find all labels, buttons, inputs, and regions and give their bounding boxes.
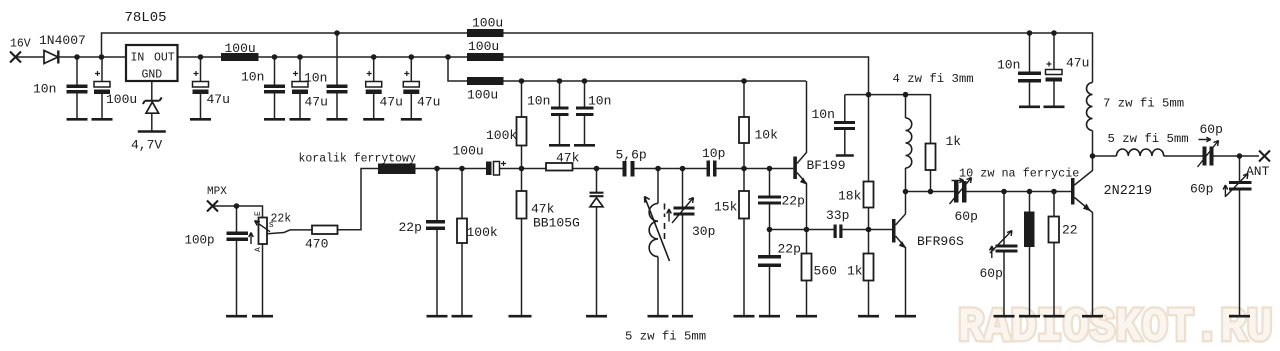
transistor BF199 [793, 157, 807, 185]
resistor 15k R8 [739, 191, 749, 219]
resistor 1k R13 [926, 144, 936, 171]
transistor BFR96S [892, 219, 906, 248]
wire 10k R7 branch [743, 81, 745, 169]
svg-text:4 zw fi 3mm: 4 zw fi 3mm [893, 72, 974, 86]
wire 47u C9 branch [410, 57, 412, 119]
resistor 22 R12 [1049, 217, 1060, 243]
svg-text:47u: 47u [305, 95, 328, 110]
svg-text:1k: 1k [946, 134, 962, 149]
ground 10n C15 [836, 154, 854, 157]
svg-text:10n: 10n [304, 71, 327, 86]
capacitor 33p [834, 225, 843, 239]
inductor 100u L3 choke mid [467, 53, 504, 61]
svg-text:33p: 33p [826, 208, 849, 223]
svg-text:22: 22 [1062, 223, 1078, 238]
wire 10n C11 branch [584, 81, 586, 145]
wire 47u C8 branch [373, 57, 375, 119]
capacitor 47u C8 electrolytic [366, 71, 382, 94]
wire BF199 collector [797, 81, 807, 164]
svg-text:10p: 10p [702, 146, 725, 161]
svg-text:OUT: OUT [154, 52, 175, 65]
wire 18k R10 branch [868, 95, 870, 230]
svg-text:IN: IN [131, 52, 145, 65]
ground main row [226, 315, 247, 318]
wire 560 R9 branch [806, 230, 808, 317]
wire 100k R2 branch from RF line to audio line [521, 81, 523, 169]
wire 60p shunt branch [1003, 192, 1005, 317]
variable inductor L5 5zw [645, 197, 670, 262]
wire 4zw coil branch [905, 95, 907, 214]
wire regulator OUT 5V rail [178, 57, 869, 95]
svg-text:RADIOSKOT.RU: RADIOSKOT.RU [958, 301, 1273, 351]
svg-text:22p: 22p [778, 242, 801, 257]
resistor 47k R3 [517, 191, 527, 219]
wire 47u C17 branch [1053, 33, 1055, 106]
ground 10n C16 47u C17 [1019, 106, 1040, 109]
wire 22p C14 branch [769, 230, 771, 317]
svg-text:4,7V: 4,7V [131, 138, 162, 153]
wire antenna shunt 60p branch [1239, 156, 1241, 316]
capacitor 10n C16 [1018, 72, 1041, 83]
wire output line to antenna [1093, 155, 1260, 157]
wire input line to regulator IN [16, 56, 127, 58]
svg-text:100k: 100k [486, 128, 517, 143]
svg-text:1k: 1k [847, 264, 863, 279]
wire supply node line y94.6 [845, 95, 931, 192]
svg-text:10k: 10k [755, 128, 779, 143]
svg-text:60p: 60p [1190, 182, 1213, 197]
wire 2N2219 collector [1075, 156, 1093, 185]
input terminal X 16V [10, 52, 21, 63]
capacitor 100u C2 electrolytic [94, 71, 110, 94]
capacitor 10n C7 [327, 85, 348, 94]
svg-text:60p: 60p [955, 209, 978, 224]
wire audio line mid segments [500, 168, 794, 170]
svg-text:10n: 10n [527, 94, 550, 109]
inductor 5 zw fi 5mm coil horizontal [1117, 149, 1164, 156]
resistor 18k R10 [864, 182, 874, 208]
svg-text:47u: 47u [207, 92, 230, 107]
trimmer capacitor 60p output series [1198, 137, 1219, 167]
capacitor 47u C9 electrolytic [403, 71, 419, 94]
varicap BB105G [590, 193, 604, 207]
svg-text:5,6p: 5,6p [616, 148, 647, 163]
svg-text:BF199: BF199 [807, 158, 846, 173]
svg-text:A: A [254, 247, 263, 252]
diode 1N4007 [44, 51, 58, 64]
svg-text:5 zw fi 5mm: 5 zw fi 5mm [625, 330, 706, 344]
svg-text:47u: 47u [380, 95, 403, 110]
svg-text:16V: 16V [10, 38, 31, 51]
capacitor 22p C12 [426, 220, 445, 230]
svg-text:78L05: 78L05 [125, 10, 167, 26]
svg-text:22p: 22p [782, 194, 805, 209]
svg-text:47k: 47k [556, 151, 580, 166]
svg-text:47u: 47u [417, 95, 440, 110]
wire pot wiper to 470 [268, 230, 313, 234]
svg-text:15k: 15k [714, 200, 738, 215]
svg-text:100u: 100u [467, 88, 498, 103]
ground symbols PSU row [67, 107, 1251, 316]
trimmer capacitor 60p series [950, 178, 972, 205]
capacitor 10p [707, 161, 717, 177]
regulator 78L05 box [126, 45, 178, 81]
wire 47u C6 branch [299, 57, 301, 119]
capacitor 47u C4 electrolytic [193, 71, 209, 94]
svg-text:470: 470 [305, 237, 328, 252]
capacitor 5,6p [623, 161, 635, 177]
inductor 4 zw fi 3mm air coil [906, 118, 912, 168]
capacitor 47u C6 electrolytic [292, 71, 308, 94]
wire BF199 emitter [797, 173, 807, 230]
ground zener [138, 130, 166, 133]
resistor 560 R9 [802, 254, 812, 281]
wire 470 to audio line [338, 169, 487, 230]
svg-text:100u: 100u [468, 39, 499, 54]
wire 22 R12 branch [1053, 192, 1055, 317]
potentiometer 22k [255, 218, 271, 245]
wire varicap BB105G branch [596, 169, 598, 317]
capacitor 10n C10 [551, 107, 569, 117]
wire 22p C12 branch [436, 169, 438, 317]
capacitor 10n C1 [67, 85, 88, 94]
terminal X ANT [1259, 151, 1270, 162]
svg-text:100u: 100u [472, 16, 503, 31]
svg-text:560: 560 [814, 264, 837, 279]
capacitor 22p C13 [758, 196, 781, 205]
wire 1k R11 branch [868, 230, 870, 317]
svg-text:18k: 18k [838, 189, 862, 204]
svg-text:10n: 10n [812, 107, 835, 122]
resistor 47k R4 horizontal [546, 163, 573, 171]
svg-text:100u: 100u [225, 41, 256, 56]
zener diode 4,7V [143, 97, 162, 113]
svg-text:100u: 100u [106, 92, 137, 107]
svg-text:E: E [254, 211, 263, 216]
svg-text:10n: 10n [33, 82, 56, 97]
resistor 1k R11 [864, 254, 874, 281]
inductor 100u L4 choke bottom [467, 77, 504, 85]
transformer 10 zw na ferrycie [1024, 212, 1035, 248]
svg-text:30p: 30p [692, 224, 715, 239]
svg-text:47k: 47k [531, 202, 555, 217]
wire 10n C1 branch [76, 57, 78, 119]
trimmer capacitor 60p antenna shunt [1223, 174, 1251, 198]
svg-text:10 zw na ferrycie: 10 zw na ferrycie [959, 167, 1079, 181]
capacitor 22p C14 [758, 255, 781, 267]
svg-text:7 zw fi 5mm: 7 zw fi 5mm [1103, 97, 1184, 111]
svg-text:22p: 22p [399, 220, 422, 235]
wire regulator GND to zener [151, 81, 153, 131]
terminal X MPX [207, 201, 218, 212]
ferrite bead koralik ferrytowy [378, 164, 416, 175]
svg-text:5 zw fi 5mm: 5 zw fi 5mm [1108, 132, 1189, 146]
wire 10n C5 branch [274, 57, 276, 119]
wire BFR96S collector line to 2N2219 base [906, 191, 1072, 193]
svg-text:100p: 100p [185, 234, 215, 248]
wire 10n C16 branch [1029, 33, 1031, 106]
wire 47k R3 branch to ground [521, 169, 523, 317]
wire 16V top rail [102, 33, 1093, 156]
svg-text:47u: 47u [1066, 56, 1089, 71]
svg-text:22k: 22k [271, 213, 292, 226]
wire 47u C4 branch [200, 57, 202, 119]
wire BF199 emitter line [770, 229, 893, 231]
wire MPX input line [213, 206, 263, 218]
wire variable coil L5 branch [657, 169, 659, 317]
capacitor 10n C15 [834, 121, 855, 130]
wire 30p trimmer branch [682, 169, 684, 317]
inductor 7 zw fi 5mm coil [1087, 83, 1093, 131]
wire 10n C10 branch [559, 81, 561, 145]
svg-text:2N2219: 2N2219 [1104, 184, 1153, 199]
wire node B to RF choke line [448, 57, 806, 81]
wire 100p branch [236, 206, 238, 316]
svg-text:60p: 60p [980, 266, 1003, 281]
capacitor 100u C18 electrolytic horizontal [486, 161, 506, 175]
resistor 470 [312, 226, 338, 235]
trimmer capacitor 30p [667, 198, 695, 224]
resistor 10k R7 [739, 117, 749, 143]
svg-text:MPX: MPX [207, 186, 227, 198]
wire BFR96S collector [896, 214, 906, 225]
wire 100u C2 branch [101, 57, 103, 119]
svg-text:1N4007: 1N4007 [39, 33, 86, 48]
svg-text:10n: 10n [588, 94, 611, 109]
ground 10n C10 C11 [549, 144, 570, 147]
svg-text:60p: 60p [1200, 122, 1223, 137]
svg-text:10n: 10n [241, 70, 264, 85]
arrow mark at 100p [249, 233, 254, 245]
trimmer capacitor 60p shunt [990, 231, 1018, 259]
wire pot bottom to ground [262, 244, 264, 316]
inductor 100u L1 choke [221, 53, 259, 61]
wire ferrite transformer branch [1029, 192, 1031, 317]
inductor 100u L2 choke top [467, 29, 504, 37]
svg-text:BB105G: BB105G [533, 216, 580, 231]
capacitor 100p [227, 232, 249, 242]
capacitor 10n C5 [264, 85, 285, 94]
wire BFR96S emitter [896, 236, 906, 316]
wire 22p C13 branch [769, 169, 771, 230]
wire 15k R8 branch [743, 169, 745, 317]
watermark RADIOSKOT.RU [958, 301, 1273, 351]
capacitor 47u C17 electrolytic [1046, 62, 1063, 82]
svg-text:koralik ferrytowy: koralik ferrytowy [299, 153, 416, 166]
transistor 2N2219 [1071, 178, 1091, 211]
svg-text:100k: 100k [467, 225, 498, 240]
svg-text:ANT: ANT [1246, 164, 1270, 179]
svg-text:10n: 10n [997, 58, 1020, 73]
svg-text:100u: 100u [453, 144, 484, 159]
wire 16V dropper at x337 [336, 33, 338, 119]
capacitor 10n C11 [576, 107, 594, 117]
svg-text:BFR96S: BFR96S [917, 234, 964, 249]
wire 10n C15 branch [844, 95, 846, 155]
wire 2N2219 emitter [1075, 198, 1093, 317]
resistor 100k R5 [457, 219, 467, 244]
resistor 100k R2 [517, 117, 527, 146]
svg-text:GND: GND [142, 69, 163, 82]
wire 100k R5 branch [461, 169, 463, 317]
